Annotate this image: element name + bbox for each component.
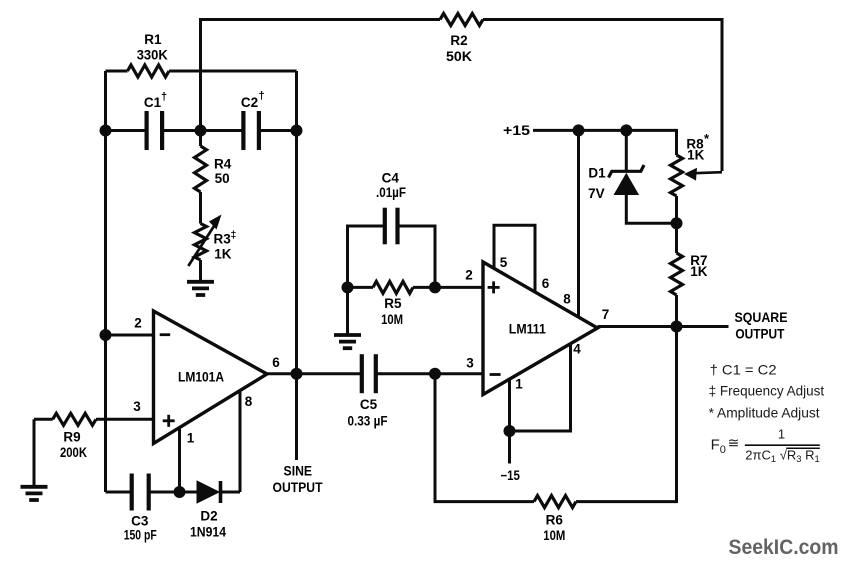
- node: [195, 125, 207, 137]
- svg-text:C1: C1: [144, 95, 162, 110]
- svg-text:R5: R5: [384, 296, 402, 311]
- wire: [221, 491, 241, 494]
- svg-text:R2: R2: [450, 33, 467, 48]
- svg-text:R6: R6: [546, 513, 564, 528]
- node: [620, 124, 632, 136]
- svg-text:10M: 10M: [543, 528, 565, 543]
- node: [671, 217, 683, 229]
- wire: [625, 130, 628, 171]
- wire: [106, 491, 132, 494]
- capacitor C3: [124, 474, 157, 543]
- watermark SeekIC.com: [729, 535, 839, 559]
- svg-text:OUTPUT: OUTPUT: [273, 480, 324, 495]
- wire: [510, 344, 571, 432]
- node: [100, 125, 112, 137]
- wire: [162, 129, 243, 132]
- wire: [598, 325, 729, 328]
- wire: [267, 372, 361, 375]
- svg-text:C5: C5: [360, 397, 378, 412]
- node: [504, 425, 516, 437]
- svg-text:SeekIC.com: SeekIC.com: [729, 535, 839, 559]
- svg-text:1N914: 1N914: [190, 524, 226, 539]
- label SINE OUTPUT: [273, 464, 324, 496]
- svg-text:10M: 10M: [381, 312, 403, 327]
- potentiometer R8: [671, 131, 723, 196]
- capacitor C5: [348, 354, 388, 428]
- ground: [187, 282, 214, 295]
- svg-text:2: 2: [134, 315, 142, 330]
- label +15: [503, 123, 531, 138]
- wire: [508, 379, 511, 464]
- ground: [21, 487, 48, 500]
- wire: [106, 129, 147, 132]
- svg-text:8: 8: [245, 394, 253, 409]
- svg-text:1K: 1K: [690, 264, 708, 279]
- svg-text:2: 2: [465, 267, 473, 282]
- svg-text:R9: R9: [63, 429, 80, 444]
- svg-text:†: †: [161, 91, 167, 103]
- svg-text:†: †: [258, 90, 264, 102]
- node: [429, 281, 441, 293]
- wire: [675, 295, 678, 327]
- svg-text:50: 50: [215, 171, 230, 186]
- svg-text:5: 5: [500, 255, 508, 270]
- wire: [169, 70, 297, 73]
- svg-text:SQUARE: SQUARE: [735, 310, 788, 325]
- svg-text:R1: R1: [144, 32, 162, 47]
- svg-text:* Amplitude Adjust: * Amplitude Adjust: [709, 405, 820, 421]
- label SQUARE OUTPUT: [735, 310, 788, 341]
- wire: [96, 418, 154, 421]
- svg-text:† C1 = C2: † C1 = C2: [710, 362, 777, 378]
- resistor R9: [53, 413, 96, 460]
- capacitor C4: [376, 170, 406, 244]
- formula F0: [711, 426, 820, 464]
- wire: [675, 196, 678, 253]
- svg-text:+15: +15: [503, 123, 531, 138]
- wire: [348, 226, 385, 287]
- wire: [533, 130, 677, 155]
- node: [291, 125, 303, 137]
- resistor R1: [128, 32, 170, 77]
- svg-text:1: 1: [187, 430, 195, 445]
- node: [174, 486, 186, 498]
- wire: [483, 20, 722, 172]
- wire: [104, 71, 107, 492]
- svg-text:50K: 50K: [446, 49, 472, 64]
- wire: [199, 18, 202, 131]
- svg-text:D2: D2: [200, 508, 217, 523]
- svg-text:6: 6: [542, 276, 550, 291]
- wire: [201, 18, 441, 21]
- ground: [334, 335, 361, 348]
- svg-text:C3: C3: [131, 513, 149, 528]
- wire: [178, 428, 181, 492]
- resistor R7: [671, 253, 708, 295]
- node: [342, 281, 354, 293]
- svg-text:C4: C4: [382, 170, 400, 185]
- svg-text:.01µF: .01µF: [376, 185, 406, 200]
- svg-text:8: 8: [563, 291, 571, 306]
- svg-text:7V: 7V: [588, 186, 605, 201]
- svg-text:150 pF: 150 pF: [124, 527, 157, 542]
- wire: [413, 286, 483, 289]
- wire: [577, 130, 580, 317]
- potentiometer R3: [188, 215, 236, 267]
- wire: [576, 327, 677, 502]
- svg-text:‡: ‡: [231, 229, 237, 241]
- wire: [376, 372, 483, 375]
- node: [429, 368, 441, 380]
- svg-text:1K: 1K: [687, 147, 705, 162]
- resistor R2: [440, 14, 483, 65]
- capacitor C2: [241, 90, 265, 150]
- wire: [260, 129, 297, 132]
- wire: [33, 419, 36, 486]
- node: [100, 329, 112, 341]
- svg-text:6: 6: [272, 355, 280, 370]
- svg-text:1: 1: [778, 426, 785, 441]
- svg-text:‡ Frequency Adjust: ‡ Frequency Adjust: [709, 383, 825, 399]
- svg-text:LM101A: LM101A: [178, 368, 224, 384]
- svg-text:7: 7: [602, 307, 610, 322]
- resistor R5: [373, 281, 413, 327]
- resistor R6: [534, 496, 576, 543]
- svg-text:SINE: SINE: [284, 464, 313, 479]
- node: [671, 321, 683, 333]
- svg-text:OUTPUT: OUTPUT: [735, 326, 785, 341]
- note amplitude adjust: [709, 405, 820, 421]
- svg-text:R3: R3: [214, 232, 232, 247]
- svg-text:1: 1: [515, 376, 523, 391]
- wire: [435, 374, 534, 502]
- wire: [239, 392, 242, 493]
- capacitor C1: [144, 91, 167, 150]
- wire: [295, 71, 298, 374]
- svg-text:2πC1 √R3 R1: 2πC1 √R3 R1: [745, 447, 819, 464]
- wire: [199, 260, 202, 282]
- svg-text:LM111: LM111: [509, 320, 546, 336]
- wire: [346, 287, 349, 334]
- wire: [494, 225, 535, 292]
- wire: [295, 374, 298, 460]
- op-amp U1 LM101A: [133, 311, 280, 445]
- zener D1: [588, 165, 644, 201]
- svg-text:4: 4: [573, 342, 581, 357]
- resistor R4: [195, 146, 232, 192]
- wire: [199, 192, 202, 224]
- svg-text:200K: 200K: [60, 445, 87, 460]
- wire: [106, 70, 128, 73]
- svg-text:1K: 1K: [214, 247, 232, 262]
- wire: [348, 286, 374, 289]
- svg-text:R4: R4: [214, 157, 232, 172]
- node: [291, 368, 303, 380]
- label -15: [500, 468, 520, 483]
- wire: [34, 418, 53, 421]
- svg-text:−15: −15: [500, 468, 520, 483]
- svg-text:330K: 330K: [137, 48, 168, 63]
- svg-text:≅: ≅: [728, 435, 740, 451]
- note dagger C1=C2: [710, 362, 777, 378]
- svg-text:C2: C2: [241, 95, 258, 110]
- node: [573, 124, 585, 136]
- wire: [199, 131, 202, 147]
- svg-text:0.33 µF: 0.33 µF: [348, 413, 388, 428]
- note frequency adjust: [709, 383, 825, 399]
- diode D2: [190, 481, 226, 539]
- comparator U2 LM111: [465, 255, 609, 395]
- svg-text:3: 3: [466, 356, 474, 371]
- wire: [149, 491, 197, 494]
- svg-text:3: 3: [133, 399, 141, 414]
- wire: [397, 226, 435, 287]
- wire: [106, 334, 154, 337]
- svg-text:D1: D1: [588, 165, 606, 180]
- wire: [626, 194, 676, 223]
